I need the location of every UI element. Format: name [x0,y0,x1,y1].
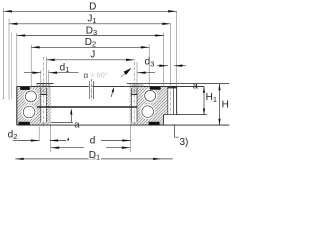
outer hole edge [167,87,169,115]
svg-text:D3: D3 [86,25,97,37]
ext line D2 left [30,45,32,87]
d1 right piece [137,72,155,74]
bore bottom far edge left [51,121,73,123]
inner ring fixing hole left (white channel) [41,95,47,123]
dimension d (row 1) [50,140,66,142]
dim line D [3,10,176,12]
inner ring top face left [37,83,54,85]
outer ring top face line / a reference [17,85,204,87]
dimension row 2 (bore) [51,147,84,149]
ext line D2 right [148,45,150,87]
ball upper right [145,90,156,101]
ball lower right [142,106,154,118]
svg-text:D: D [89,1,96,12]
ext d left [50,126,52,153]
ext d1 inner [48,70,50,86]
alpha leader arrowhead [124,68,132,75]
svg-text:J1: J1 [87,14,96,26]
ext d right [130,126,132,153]
svg-text:α: α [84,71,89,80]
seal bottom right (black) [149,122,160,125]
d2 arrow [31,139,39,141]
svg-text:a: a [74,119,79,129]
dimension D1 [15,158,173,160]
ext J1 right upper [170,24,172,86]
left hole counterbore bottom [40,94,47,96]
bottom face line + H reference [17,124,230,126]
svg-text:J: J [90,50,95,61]
dim line J1 [9,23,171,25]
svg-text:d1: d1 [60,62,70,74]
ext line J1 left [8,19,10,100]
outer hole edge 2 [173,87,175,115]
note 3) with leader [175,124,179,137]
D1 arrow left [15,158,23,160]
outer ring step edge right [163,115,165,126]
left hole edge outer [40,88,42,122]
ring split line (thick) [37,106,137,108]
d1 outside arrow left [32,72,40,74]
outer ring OD edge right (D diameter) [176,86,178,114]
right hole edge inner [130,88,132,122]
inner ring top face right + H reference [127,83,229,85]
ball upper left [25,91,36,102]
d3 arrow right [174,65,182,67]
right hole axis (dash-dot) [133,62,135,126]
ext line (flange) left [11,33,13,99]
dim line H [219,84,221,126]
inner ring right section (hatched) [130,84,144,125]
svg-text:D2: D2 [85,37,96,49]
lube hole edge redraw 2 [93,81,95,99]
ext d1 left [40,70,42,88]
seal top right (black) [150,87,161,90]
right hole edge outer [136,88,138,122]
dim line D2 [31,46,149,48]
dim line H1 [203,86,205,114]
tick at D ext end [2,97,6,99]
outer ring right section (hatched) [143,86,168,125]
ext d1 right [136,62,138,88]
right hole counterbore bottom [131,94,138,96]
d1 line under label [49,72,79,74]
svg-text:H1: H1 [206,92,217,104]
ext d2 [38,127,40,142]
small tick on row 1 [67,137,69,140]
outer ring fixing hole right (white) [168,88,176,114]
svg-text:a: a [193,81,198,91]
d1 inner arrow [49,72,57,74]
dim line J [46,59,134,61]
d3 arrow left [159,65,167,67]
svg-text:d3: d3 [145,57,155,69]
lubrication hole marks (center) [88,81,90,99]
left hole axis (dash-dot) [43,57,45,126]
race gap halos around balls [24,90,37,103]
ext line D left [2,8,4,99]
gap in top face line at lube hole [89,86,93,88]
ball lower left [23,106,35,118]
outer ring OD edge left (D3 diameter) [16,86,18,125]
seal top left (black) [20,87,30,90]
seal bottom left (black) [19,122,30,125]
svg-text:D1: D1 [89,150,100,162]
outer ring left section (hatched) [17,86,38,125]
ext line D3 left [16,33,18,86]
outer hole axis (dash-dot) [170,86,172,114]
dim line D3 [17,35,164,37]
d1 outside arrow right [137,72,145,74]
D1 arrow right [153,158,161,160]
dimension a (left, bottom offset) [70,110,72,123]
inner ring fixing hole right (white channel) [131,95,137,123]
svg-text:d: d [90,136,96,147]
outer ring bottom right + H1 reference [164,114,207,116]
dimension d3 [157,65,168,67]
svg-text:H: H [222,99,229,110]
d3 right piece [174,65,186,67]
outer ring hole counterbore cap (dark) [167,87,176,89]
inner ring left section (hatched) [37,84,51,125]
ext line D3 right [163,33,165,86]
leader arrow to top face gap [111,90,113,97]
ext line J left [46,57,48,88]
alpha leader [121,73,127,78]
svg-text:= 60°: = 60° [90,71,108,80]
lube hole edge redraw [88,81,90,99]
lube hole axis redraw [90,79,92,101]
svg-text:d2: d2 [8,129,18,141]
ext line D right [176,11,178,86]
dimension d2 (row 1 left) [13,140,40,142]
svg-text:3): 3) [180,137,189,148]
dimension d1 [24,72,41,74]
left hole edge inner [46,88,48,122]
